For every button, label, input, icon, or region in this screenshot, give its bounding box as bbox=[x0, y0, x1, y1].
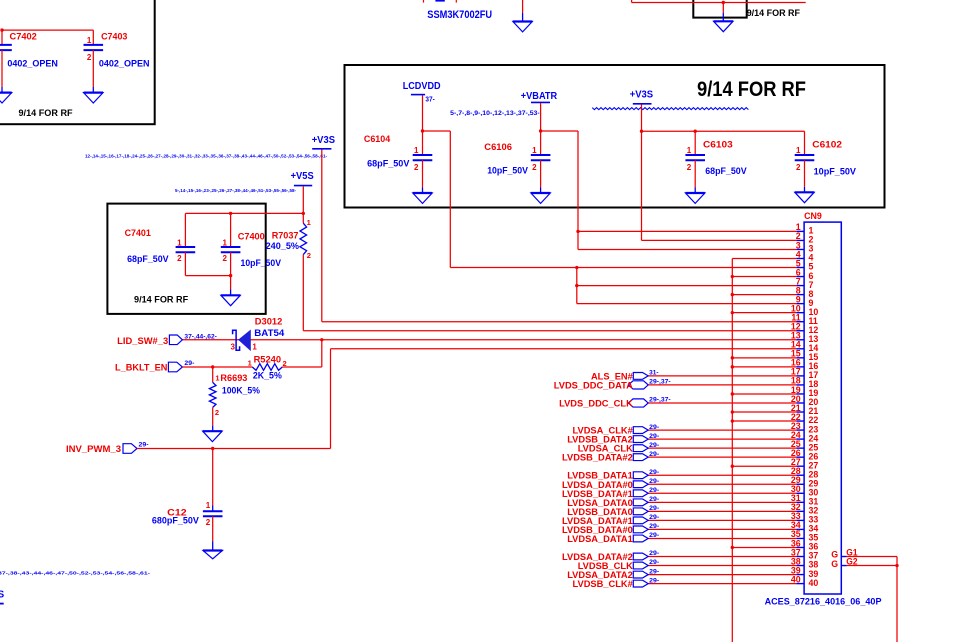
svg-text:2: 2 bbox=[215, 408, 219, 417]
wire: pin 5 long from C6104 branch bbox=[450, 267, 796, 269]
pin 37 stub bbox=[796, 556, 804, 558]
wire: pin 27 from ground bus bbox=[732, 465, 796, 467]
svg-text:680pF_50V: 680pF_50V bbox=[152, 516, 200, 526]
node: junction pin7/V4 bbox=[575, 284, 578, 287]
ground (C6103) bbox=[686, 192, 705, 194]
wire: LCDVDD down bbox=[422, 95, 424, 155]
svg-text:1: 1 bbox=[687, 146, 692, 155]
capacitor C6103 bbox=[694, 131, 696, 155]
svg-text:G: G bbox=[831, 559, 838, 569]
wire: V2 down to CN9 pin2 bbox=[641, 131, 643, 240]
wire: pin 18 signal bbox=[648, 384, 796, 386]
svg-text:2: 2 bbox=[87, 53, 92, 62]
wire: ground bus V3 vertical bbox=[731, 258, 733, 642]
wire: rail to C6103/C6102 bbox=[642, 130, 805, 132]
svg-text:C7400: C7400 bbox=[238, 232, 265, 242]
svg-text:2: 2 bbox=[796, 163, 801, 172]
svg-text:9/14 FOR RF: 9/14 FOR RF bbox=[19, 108, 73, 119]
svg-text:29-: 29- bbox=[184, 360, 194, 367]
pin 8 stub bbox=[796, 294, 804, 296]
wire: R7037 to CN9 pin 12 bbox=[302, 255, 304, 331]
pin 12 stub bbox=[796, 330, 804, 332]
port ALS_EN# bbox=[633, 372, 648, 379]
svg-text:10pF_50V: 10pF_50V bbox=[487, 166, 529, 176]
pin 22 stub bbox=[796, 420, 804, 422]
node: junction C7400 top bbox=[229, 212, 232, 215]
port LVDSB_DATA1 bbox=[633, 472, 648, 479]
wire: box1 top rail bbox=[185, 212, 303, 214]
svg-text:68pF_50V: 68pF_50V bbox=[127, 254, 169, 264]
pin 21 stub bbox=[796, 411, 804, 413]
box: top-right (cut off) bbox=[693, 0, 746, 18]
svg-text:C6104: C6104 bbox=[364, 134, 391, 144]
svg-text:29-: 29- bbox=[649, 424, 659, 431]
svg-text:1: 1 bbox=[206, 501, 211, 510]
svg-text:9/14 FOR RF: 9/14 FOR RF bbox=[747, 8, 800, 19]
wire: +VBATR down bbox=[540, 103, 542, 155]
wire: pin 36 from ground bus bbox=[732, 546, 796, 548]
pin 38 stub bbox=[796, 565, 804, 567]
pin 36 stub bbox=[796, 546, 804, 548]
pin 23 stub bbox=[796, 429, 804, 431]
svg-text:40: 40 bbox=[791, 574, 801, 584]
node: junction C12 tap bbox=[211, 447, 214, 450]
wire: +V5S down bbox=[302, 186, 304, 223]
svg-text:LVDSA_DATA1: LVDSA_DATA1 bbox=[567, 534, 633, 544]
svg-text:29-: 29- bbox=[649, 433, 659, 440]
svg-text:INV_PWM_3: INV_PWM_3 bbox=[66, 444, 121, 454]
wire: pin 2 from +V3S branch bbox=[642, 239, 797, 241]
wire: pin 1 from C6106 branch bbox=[578, 230, 796, 232]
ground (top center) bbox=[513, 20, 532, 22]
svg-text:240_5%: 240_5% bbox=[266, 241, 300, 251]
svg-text:68pF_50V: 68pF_50V bbox=[705, 166, 747, 176]
svg-text:1: 1 bbox=[414, 146, 419, 155]
svg-text:29-,37-: 29-,37- bbox=[649, 379, 671, 386]
pin 13 stub bbox=[796, 339, 804, 341]
svg-text:C7403: C7403 bbox=[101, 32, 127, 42]
svg-text:2: 2 bbox=[414, 163, 419, 172]
svg-text:5-,14-,15-,16-,23-,25-,26-,27-: 5-,14-,15-,16-,23-,25-,26-,27-,38-,44-,4… bbox=[175, 188, 296, 193]
port LVDSA_CLK# bbox=[633, 427, 648, 434]
wire: pin 29 signal bbox=[648, 483, 796, 485]
wire: pin 20 signal bbox=[648, 402, 796, 404]
transistor Q (cut off at top) SSM3K7002FU bbox=[423, 0, 425, 3]
svg-text:1: 1 bbox=[532, 146, 537, 155]
svg-text:100K_5%: 100K_5% bbox=[222, 386, 261, 396]
svg-text:2: 2 bbox=[307, 251, 311, 260]
wire: drain to ground bbox=[522, 0, 524, 13]
svg-text:0402_OPEN: 0402_OPEN bbox=[7, 58, 58, 68]
pin 7 stub bbox=[796, 285, 804, 287]
ground (box1) bbox=[221, 294, 240, 296]
node: junction at C7402 top bbox=[0, 28, 3, 31]
svg-text:LID_SW#_3: LID_SW#_3 bbox=[117, 336, 168, 346]
ground (top right) bbox=[714, 20, 733, 22]
node: junction pin 21 bbox=[731, 410, 734, 413]
wire: pin 34 signal bbox=[648, 528, 796, 530]
diode symbol (cathode bar + triangle) bbox=[233, 330, 240, 350]
port LVDSA_DATA#0 bbox=[633, 481, 648, 488]
wire: pin 23 signal bbox=[648, 429, 796, 431]
svg-text:+VBATR: +VBATR bbox=[521, 91, 558, 102]
pin 27 stub bbox=[796, 465, 804, 467]
svg-text:S: S bbox=[0, 590, 5, 601]
pin 24 stub bbox=[796, 438, 804, 440]
pin 11 stub bbox=[796, 321, 804, 323]
svg-text:C6106: C6106 bbox=[484, 142, 512, 152]
svg-text:29-: 29- bbox=[649, 442, 659, 449]
svg-text:12-,14-,15-,16-,17-,18-,24-,25: 12-,14-,15-,16-,17-,18-,24-,25-,26-,27-,… bbox=[85, 153, 327, 158]
wire: pin 40 signal bbox=[648, 583, 796, 585]
port LVDSA_DATA1 bbox=[633, 535, 648, 542]
wire: pin 10 from ground bus bbox=[732, 312, 796, 314]
pin 34 stub bbox=[796, 528, 804, 530]
wire: pin 16 from ground bus bbox=[732, 366, 796, 368]
svg-text:L_BKLT_EN: L_BKLT_EN bbox=[115, 363, 168, 373]
resistor R5240 bbox=[252, 364, 282, 371]
wire: G1 to vertical bbox=[847, 556, 898, 558]
ground (C6102) bbox=[795, 191, 814, 193]
svg-text:R5240: R5240 bbox=[254, 355, 281, 365]
svg-text:LVDSB_DATA#2: LVDSB_DATA#2 bbox=[562, 453, 633, 463]
svg-text:68pF_50V: 68pF_50V bbox=[367, 158, 410, 168]
svg-text:LVDS_DDC_DATA: LVDS_DDC_DATA bbox=[554, 380, 633, 390]
wire: pin 28 signal bbox=[648, 474, 796, 476]
svg-text:1: 1 bbox=[215, 374, 219, 383]
pin 2 stub bbox=[796, 239, 804, 241]
capacitor C7402 bbox=[1, 30, 3, 45]
pin 29 stub bbox=[796, 483, 804, 485]
wire: G2 to vertical bbox=[847, 565, 898, 567]
box: 9/14 FOR RF capacitor bank bbox=[345, 65, 885, 208]
wire: pin 8 from ground bus bbox=[732, 294, 796, 296]
svg-text:C6103: C6103 bbox=[703, 140, 733, 150]
node: +V3S rail junction bbox=[640, 130, 643, 133]
port LVDSA_DATA0 bbox=[633, 499, 648, 506]
wire: pin 37 signal bbox=[648, 556, 796, 558]
svg-text:1: 1 bbox=[307, 218, 311, 227]
svg-text:2K_5%: 2K_5% bbox=[253, 371, 283, 381]
node: junction pin 10 bbox=[731, 311, 734, 314]
svg-text:29-: 29- bbox=[649, 469, 659, 476]
pin 5 stub bbox=[796, 267, 804, 269]
pin 15 stub bbox=[796, 357, 804, 359]
wire: INV_PWM_3 to CN9 pin 14 bbox=[137, 448, 331, 450]
port LVDSA_DATA#2 bbox=[633, 553, 648, 560]
node: junction pin 19 bbox=[731, 392, 734, 395]
resistor R6693 bbox=[212, 367, 214, 382]
wire: +V3S to CN9 pin 11 bbox=[321, 150, 323, 322]
svg-text:2: 2 bbox=[687, 163, 692, 172]
port LVDSB_DATA0 bbox=[633, 508, 648, 515]
node: junction pin 36 bbox=[731, 546, 734, 549]
capacitor C7403 bbox=[92, 30, 94, 45]
pin 35 stub bbox=[796, 537, 804, 539]
svg-text:1: 1 bbox=[223, 239, 228, 248]
pin 10 stub bbox=[796, 312, 804, 314]
wire: pin 39 signal bbox=[648, 574, 796, 576]
wire: pin 21 from ground bus bbox=[732, 411, 796, 413]
ground (R6693) bbox=[203, 430, 222, 432]
wire: C7402/C7403 top rail bbox=[2, 29, 93, 31]
svg-text:SSM3K7002FU: SSM3K7002FU bbox=[427, 9, 492, 21]
node: junction R6693 tap bbox=[211, 365, 214, 368]
svg-text:0402_OPEN: 0402_OPEN bbox=[99, 58, 150, 68]
node: junction C7400 bottom bbox=[229, 274, 232, 277]
wire: pin 35 signal bbox=[648, 537, 796, 539]
wire: pin 33 signal bbox=[648, 519, 796, 521]
svg-text:1: 1 bbox=[796, 146, 801, 155]
wire: pin 4 to ground bus V3 bbox=[732, 257, 796, 259]
node: C6106 junction bbox=[539, 129, 542, 132]
svg-text:1: 1 bbox=[252, 343, 257, 352]
svg-text:29-: 29- bbox=[649, 496, 659, 503]
pin G2 stub bbox=[841, 565, 846, 567]
ground (C6104) bbox=[413, 192, 432, 194]
wire: pin 38 signal bbox=[648, 565, 796, 567]
wire: pin 15 from ground bus bbox=[732, 357, 796, 359]
svg-text:37-,38-,43-,44-,46-,47-,50-,52: 37-,38-,43-,44-,46-,47-,50-,52-,53-,54-,… bbox=[0, 571, 151, 576]
wire: pin 26 signal bbox=[648, 456, 796, 458]
svg-text:2: 2 bbox=[177, 254, 182, 263]
svg-text:LVDS_DDC_CLK: LVDS_DDC_CLK bbox=[559, 398, 633, 408]
wire: LID_SW# to CN9 pin 13 bbox=[182, 339, 796, 341]
wire: box1 bottom rail bbox=[185, 275, 230, 277]
svg-text:29-: 29- bbox=[649, 532, 659, 539]
node: junction pin 22 bbox=[731, 419, 734, 422]
svg-text:2: 2 bbox=[206, 518, 211, 527]
svg-text:29-: 29- bbox=[649, 568, 659, 575]
svg-text:C6102: C6102 bbox=[812, 140, 842, 150]
pin 30 stub bbox=[796, 492, 804, 494]
port LVDSB_DATA2 bbox=[633, 436, 648, 443]
wire: pin 31 signal bbox=[648, 501, 796, 503]
svg-text:10pF_50V: 10pF_50V bbox=[241, 258, 282, 268]
svg-text:D3012: D3012 bbox=[255, 317, 282, 327]
svg-text:2: 2 bbox=[532, 163, 537, 172]
port LVDSA_CLK bbox=[633, 445, 648, 452]
svg-text:3: 3 bbox=[230, 343, 235, 352]
svg-text:R6693: R6693 bbox=[220, 373, 247, 383]
wire: pin 6 from ground bus bbox=[732, 276, 796, 278]
wire: V4 vertical bbox=[576, 268, 578, 304]
svg-text:+V5S: +V5S bbox=[291, 171, 314, 182]
svg-text:CN9: CN9 bbox=[804, 211, 822, 221]
svg-text:29-,37-: 29-,37- bbox=[649, 397, 671, 404]
capacitor C6102 bbox=[804, 131, 806, 155]
wire: top-right horizontal net bbox=[631, 0, 633, 3]
node: junction pin 16 bbox=[731, 365, 734, 368]
wire: pin 9 from V4 bbox=[577, 303, 797, 305]
node: junction G2 bbox=[895, 564, 898, 567]
port LVDSB_CLK bbox=[633, 562, 648, 569]
svg-text:LCDVDD: LCDVDD bbox=[403, 81, 441, 92]
node: C6104 junction bbox=[421, 129, 424, 132]
wire: pin 17 signal bbox=[648, 375, 796, 377]
resistor R7037 bbox=[300, 223, 307, 254]
pin 28 stub bbox=[796, 474, 804, 476]
capacitor C6106 bbox=[531, 154, 551, 156]
svg-text:1: 1 bbox=[87, 36, 92, 45]
port LVDSB_DATA#0 bbox=[633, 526, 648, 533]
svg-text:40: 40 bbox=[809, 578, 819, 588]
node: junction +V5S/R7037/box1 bbox=[302, 212, 305, 215]
ground (C7403) bbox=[84, 91, 103, 93]
svg-text:+V3S: +V3S bbox=[312, 135, 336, 146]
pin 40 stub bbox=[796, 583, 804, 585]
pin 25 stub bbox=[796, 447, 804, 449]
pin 4 stub bbox=[796, 257, 804, 259]
svg-text:29-: 29- bbox=[649, 487, 659, 494]
node: junction pin 27 bbox=[731, 465, 734, 468]
svg-text:29-: 29- bbox=[649, 577, 659, 584]
port LVDSA_DATA#1 bbox=[633, 517, 648, 524]
wire: +V3S down to rail bbox=[641, 104, 643, 131]
svg-text:LVDSB_CLK#: LVDSB_CLK# bbox=[573, 579, 634, 589]
node: junction above ground bbox=[722, 1, 725, 4]
node: junction pin5/V4 bbox=[575, 266, 578, 269]
wire: branch to CN9 pins 1,3 (V1) bbox=[541, 130, 578, 132]
wire: pin 24 signal bbox=[648, 438, 796, 440]
pin 9 stub bbox=[796, 303, 804, 305]
svg-text:ACES_87216_4016_06_40P: ACES_87216_4016_06_40P bbox=[765, 597, 882, 607]
pin 17 stub bbox=[796, 375, 804, 377]
port LVDS_DDC_CLK bbox=[628, 399, 648, 407]
pin 32 stub bbox=[796, 510, 804, 512]
svg-text:2: 2 bbox=[223, 254, 228, 263]
node: junction pin1/V1 bbox=[576, 230, 579, 233]
pin 31 stub bbox=[796, 501, 804, 503]
port LVDSB_DATA#2 bbox=[633, 454, 648, 461]
svg-text:1: 1 bbox=[177, 239, 182, 248]
box: 9/14 FOR RF C7401/C7400 bbox=[107, 204, 265, 314]
svg-text:29-: 29- bbox=[649, 523, 659, 530]
squiggle annotation bbox=[592, 108, 748, 110]
pin 39 stub bbox=[796, 574, 804, 576]
svg-text:29-: 29- bbox=[649, 514, 659, 521]
svg-text:29-: 29- bbox=[649, 505, 659, 512]
node: junction pin 8 bbox=[731, 293, 734, 296]
svg-text:BAT54: BAT54 bbox=[254, 328, 285, 338]
pin G1 stub bbox=[841, 556, 846, 558]
wire: pin 7 from V4 bbox=[577, 285, 797, 287]
svg-text:29-: 29- bbox=[649, 559, 659, 566]
svg-text:1: 1 bbox=[248, 358, 252, 367]
capacitor C7401 bbox=[184, 213, 186, 247]
svg-text:5-,7-,8-,9-,10-,12-,13-,37-,53: 5-,7-,8-,9-,10-,12-,13-,37-,53- bbox=[450, 110, 540, 117]
svg-text:29-: 29- bbox=[649, 478, 659, 485]
port LVDSB_CLK# bbox=[633, 580, 648, 587]
svg-text:29-: 29- bbox=[649, 550, 659, 557]
port LVDS_DDC_DATA bbox=[628, 381, 648, 389]
node: junction diode/R5240 bbox=[320, 338, 323, 341]
node: junction pin 15 bbox=[731, 356, 734, 359]
capacitor C6104 bbox=[413, 154, 433, 156]
wire: pin 3 from V1 bbox=[578, 248, 796, 250]
node: junction pin 6 bbox=[731, 275, 734, 278]
svg-text:+V3S: +V3S bbox=[630, 90, 654, 101]
pin 20 stub bbox=[796, 402, 804, 404]
wire: pin 25 signal bbox=[648, 447, 796, 449]
wire: L_BKLT_EN to R5240 bbox=[182, 366, 252, 368]
ground (C7402) bbox=[0, 91, 12, 93]
pin 19 stub bbox=[796, 393, 804, 395]
pin 18 stub bbox=[796, 384, 804, 386]
pin 16 stub bbox=[796, 366, 804, 368]
node: C6103 junction bbox=[694, 130, 697, 133]
pin 3 stub bbox=[796, 248, 804, 250]
wire: pin 22 from ground bus bbox=[732, 420, 796, 422]
svg-text:29-: 29- bbox=[649, 451, 659, 458]
port LVDSA_DATA2 bbox=[633, 571, 648, 578]
svg-text:29-: 29- bbox=[139, 442, 149, 449]
pin 14 stub bbox=[796, 348, 804, 350]
svg-text:R7037: R7037 bbox=[272, 230, 299, 240]
wire: branch to pin5 bbox=[423, 130, 451, 132]
svg-text:31-: 31- bbox=[649, 370, 658, 377]
capacitor C12 bbox=[212, 449, 214, 506]
svg-text:C7402: C7402 bbox=[10, 32, 37, 42]
wire: pin 30 signal bbox=[648, 492, 796, 494]
svg-text:37-: 37- bbox=[425, 97, 435, 104]
svg-text:9/14 FOR RF: 9/14 FOR RF bbox=[697, 78, 806, 101]
pin 33 stub bbox=[796, 519, 804, 521]
wire: G vertical to bottom bbox=[896, 557, 898, 642]
svg-text:37-,44-,62-: 37-,44-,62- bbox=[184, 334, 217, 341]
pin 1 stub bbox=[796, 230, 804, 232]
wire: pin 19 from ground bus bbox=[732, 393, 796, 395]
ground (C12) bbox=[203, 549, 222, 551]
ground (C6106) bbox=[531, 192, 550, 194]
svg-text:9/14 FOR RF: 9/14 FOR RF bbox=[134, 295, 188, 306]
svg-text:C7401: C7401 bbox=[125, 228, 151, 238]
capacitor C7400 bbox=[230, 213, 232, 247]
wire: R5240 to diode node bbox=[282, 366, 322, 368]
svg-text:10pF_50V: 10pF_50V bbox=[814, 167, 857, 177]
pin 6 stub bbox=[796, 276, 804, 278]
box: top-left 9/14 FOR RF region bbox=[0, 0, 155, 124]
pin 26 stub bbox=[796, 456, 804, 458]
wire: pin 32 signal bbox=[648, 510, 796, 512]
port LVDSB_DATA#1 bbox=[633, 490, 648, 497]
